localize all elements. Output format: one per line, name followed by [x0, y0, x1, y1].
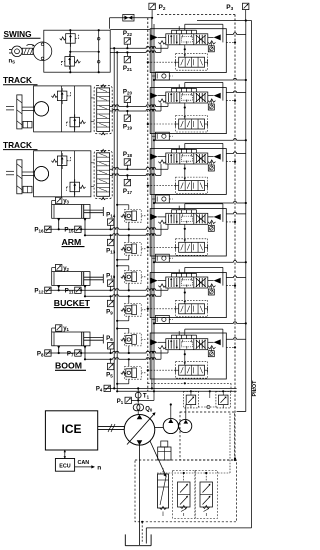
- shuttle valve after section track1: [156, 132, 170, 140]
- svg-text:nS: nS: [9, 59, 16, 65]
- work line B boom: [85, 358, 161, 360]
- main control valve V6 (boom): [166, 339, 208, 350]
- wire CAN arrow: [75, 466, 94, 468]
- pilot compensator valve under V2: [179, 119, 205, 129]
- track counterbalance valve: [94, 150, 112, 198]
- position sensor y3: [56, 197, 62, 203]
- pilot compensator valve under V4: [179, 242, 205, 252]
- sensor P19: [124, 115, 130, 121]
- track gearbox: [23, 121, 32, 128]
- wire return to tank: [146, 527, 251, 529]
- flow meter Q0: [133, 404, 140, 411]
- wire pilot dashed to compensator swing: [148, 61, 176, 63]
- wire pump bus 2: [116, 52, 118, 391]
- shuttle valve after section track2: [156, 195, 170, 203]
- svg-text:P18: P18: [123, 151, 133, 158]
- regulator dashed box: [135, 460, 237, 522]
- reducing valve upper boom: [121, 338, 126, 341]
- svg-text:P12: P12: [34, 288, 44, 295]
- reducing valve lower bucket: [121, 308, 126, 311]
- track relief valve 1: [57, 156, 67, 166]
- cylinder ARM: [52, 205, 90, 219]
- main control valve V4 (arm): [166, 213, 208, 224]
- pilot compensator valve under V1: [179, 57, 205, 67]
- tank: [124, 534, 126, 545]
- track valve box: [34, 151, 91, 197]
- compensator valve 1: [186, 395, 196, 405]
- svg-text:ECU: ECU: [59, 464, 70, 470]
- swash feedback link: [150, 441, 166, 476]
- main control valve V2 (track1): [166, 92, 208, 103]
- wire section tie line track1: [154, 138, 246, 140]
- swing shaft: [22, 48, 33, 54]
- valve section box track2: [150, 149, 226, 195]
- svg-text:P6: P6: [106, 335, 113, 342]
- work line B swing: [110, 51, 161, 53]
- regulator valve R2: [173, 471, 195, 519]
- wire V3 to compensator: [184, 164, 186, 181]
- wire regulator drain to tank: [141, 522, 143, 544]
- work line A bucket: [45, 289, 168, 291]
- swing hydraulic motor: [33, 42, 52, 61]
- swash servo actuator: [158, 447, 171, 460]
- pump arrow marks: [137, 415, 143, 420]
- svg-text:P22: P22: [123, 30, 133, 37]
- work line B track1: [110, 109, 161, 111]
- wire drop to swing box: [109, 18, 111, 29]
- sensor P17: [124, 179, 130, 185]
- wire swing box top to section: [110, 28, 150, 30]
- swing relief valve 1: [66, 34, 76, 44]
- shuttle valve after section bucket: [156, 315, 170, 323]
- orifice meter on P2 line: [123, 14, 134, 21]
- svg-text:ICE: ICE: [61, 422, 81, 436]
- wire swing right branch: [70, 51, 98, 53]
- svg-text:BOOM: BOOM: [55, 361, 82, 371]
- regulator dashed box upper: [180, 412, 235, 460]
- wire section tie line swing: [154, 78, 246, 80]
- svg-text:CAN: CAN: [78, 460, 90, 466]
- wire track box verticals: [61, 151, 63, 197]
- track valve box: [34, 86, 91, 132]
- gauge T1: [135, 392, 141, 398]
- svg-text:BUCKET: BUCKET: [54, 298, 91, 308]
- work line B bucket: [85, 295, 161, 297]
- valve section box swing: [150, 29, 226, 73]
- svg-text:P20: P20: [123, 89, 133, 96]
- main control valve V3 (track2): [166, 153, 208, 164]
- work line A swing: [110, 47, 168, 49]
- wire pilot dashed bus: [147, 18, 149, 392]
- track gearbox: [23, 186, 32, 193]
- wire swing center line: [69, 30, 71, 72]
- wire pilot dashed to V1: [226, 41, 235, 43]
- wire pilot dashed to V6: [226, 346, 235, 348]
- wire pilot dashed to compensator boom: [148, 369, 176, 371]
- track relief valve 2: [70, 117, 80, 127]
- reducing valve upper arm: [121, 214, 126, 217]
- ECU box: [55, 459, 74, 472]
- svg-text:T1: T1: [143, 394, 150, 400]
- wire V2 to compensator: [184, 103, 186, 119]
- wire top right return: [197, 20, 252, 22]
- swing valve box: [44, 30, 110, 72]
- main control valve V1 (swing): [166, 34, 208, 45]
- wire ARM port A: [58, 221, 60, 230]
- work line A arm: [45, 228, 168, 230]
- position sensor y2: [56, 264, 62, 270]
- regulator valve R3: [195, 471, 217, 519]
- swing relief valve 2: [65, 57, 75, 67]
- sensor P9: [107, 300, 113, 306]
- wire bottom second line: [117, 390, 236, 392]
- work line A track2: [110, 168, 168, 170]
- main control valve V5 (bucket): [166, 277, 208, 288]
- track relief valve 1: [57, 91, 67, 101]
- sensor P2: [149, 3, 155, 9]
- wire pilot dashed to V2: [226, 100, 235, 102]
- svg-text:SWING: SWING: [4, 29, 32, 39]
- gear pump 1: [163, 418, 178, 433]
- svg-text:P2: P2: [159, 4, 166, 11]
- work line B arm: [85, 234, 161, 236]
- wire pilot dashed to compensator arm: [148, 246, 176, 248]
- wire pilot dashed above compensators: [148, 382, 231, 384]
- work line A track1: [110, 105, 168, 107]
- reducing valve lower arm: [121, 247, 126, 250]
- wire V6 to compensator: [184, 350, 186, 366]
- wire section outlet track1: [226, 91, 246, 93]
- svg-text:P9: P9: [106, 309, 113, 316]
- wire pump bus 1: [113, 48, 115, 388]
- svg-text:y3: y3: [63, 199, 69, 205]
- wire track box verticals: [61, 86, 63, 132]
- wire regulator connections: [162, 468, 164, 474]
- shuttle valve after section swing: [156, 72, 170, 80]
- wire BOOM port A: [58, 348, 60, 353]
- work line B track2: [110, 174, 161, 176]
- wire gear pump risers: [170, 405, 172, 419]
- shuttle valve after section arm: [156, 254, 170, 262]
- svg-text:TRACK: TRACK: [3, 140, 32, 150]
- wire supply line S1: [151, 18, 153, 389]
- wire right return bus 1: [245, 21, 247, 412]
- swing check valve 2: [96, 59, 102, 65]
- junction dots swing box: [69, 29, 71, 31]
- wire pump case drain: [139, 445, 141, 545]
- svg-text:P7: P7: [67, 350, 74, 357]
- svg-text:y2: y2: [63, 266, 69, 272]
- wire BOOM port B: [84, 348, 86, 359]
- svg-text:P5: P5: [106, 372, 113, 379]
- wire BUCKET port B: [84, 288, 86, 297]
- wire return bend: [237, 411, 246, 413]
- sensor P21: [124, 56, 130, 62]
- svg-text:P15: P15: [64, 227, 74, 234]
- track hydraulic motor: [34, 167, 48, 181]
- svg-text:y1: y1: [63, 326, 69, 332]
- wire bottom supply line: [104, 387, 237, 389]
- wire section outlet track2: [226, 152, 246, 154]
- svg-text:P17: P17: [123, 188, 133, 195]
- wire V1 to compensator: [184, 45, 186, 57]
- wire ARM port B: [84, 221, 86, 236]
- engine ICE box: [45, 411, 97, 450]
- sensor P13: [107, 239, 113, 245]
- swing check valve 1: [96, 36, 102, 42]
- wire section outlet swing: [226, 33, 246, 35]
- wire pilot dashed to compensator bucket: [148, 308, 176, 310]
- svg-text:P8: P8: [37, 350, 44, 357]
- wire section outlet boom: [226, 338, 246, 340]
- svg-text:Q0: Q0: [145, 406, 153, 412]
- wire pump line P2 to top: [110, 17, 152, 19]
- valve section box track1: [150, 88, 226, 134]
- wire section outlet bucket: [226, 276, 246, 278]
- reducing valve lower boom: [121, 371, 126, 374]
- wire section outlet arm: [226, 212, 246, 214]
- regulator servo valve R1: [158, 474, 169, 508]
- cylinder BOOM: [52, 332, 90, 346]
- gear pump 2: [179, 419, 192, 432]
- wire pilot dashed to V4: [226, 221, 235, 223]
- cylinder BUCKET: [52, 272, 90, 286]
- main pump: [124, 415, 155, 446]
- track counterbalance valve: [94, 86, 112, 134]
- wire V4 to compensator: [184, 224, 186, 242]
- svg-text:P16: P16: [34, 227, 44, 234]
- swing gear: [12, 46, 23, 57]
- orifice on pilot drain: [233, 440, 237, 444]
- reducing valve upper bucket: [121, 275, 126, 278]
- track tread: [17, 160, 22, 194]
- wire pilot dashed to V5: [226, 285, 235, 287]
- wire section tie line track2: [154, 201, 246, 203]
- wire P1 tap line: [131, 399, 154, 401]
- wire pump riser: [137, 388, 139, 392]
- svg-text:P11: P11: [65, 288, 74, 295]
- svg-text:TRACK: TRACK: [3, 75, 32, 85]
- svg-text:P13: P13: [106, 248, 116, 255]
- wire ICE shaft: [98, 425, 125, 427]
- track tread: [17, 95, 22, 129]
- svg-text:P4: P4: [96, 387, 103, 393]
- svg-text:P21: P21: [123, 65, 133, 72]
- pilot compensator valve under V5: [179, 304, 205, 314]
- wire pilot dashed to compensator track1: [148, 123, 176, 125]
- svg-text:P3: P3: [226, 4, 233, 11]
- track relief valve 2: [70, 182, 80, 192]
- wire section tie line bucket: [154, 322, 246, 324]
- svg-text:ARM: ARM: [62, 237, 82, 247]
- valve section box bucket: [150, 273, 226, 318]
- svg-text:P1: P1: [117, 399, 124, 405]
- sensor P5: [107, 363, 113, 369]
- track input shaft: [6, 105, 14, 107]
- valve section box arm: [150, 209, 226, 256]
- wire compensator link: [209, 391, 211, 398]
- wire dashed pilot top: [157, 14, 235, 16]
- svg-text:n: n: [97, 464, 101, 471]
- wire pilot dashed to V3: [226, 161, 235, 163]
- svg-text:P19: P19: [123, 123, 133, 130]
- track input shaft: [6, 170, 14, 172]
- svg-text:P14: P14: [106, 211, 116, 218]
- pilot compensator valve under V6: [179, 365, 205, 375]
- wire BUCKET port A: [58, 288, 60, 291]
- position sensor y1: [56, 325, 62, 331]
- track hydraulic motor: [34, 102, 48, 116]
- compensator valve 2: [219, 395, 229, 405]
- wire right dashed pilot bus: [234, 15, 236, 461]
- wire right return bus 2: [251, 21, 253, 528]
- valve section box boom: [150, 333, 226, 379]
- svg-text:P10: P10: [106, 272, 116, 279]
- wire pilot dashed to compensator track2: [148, 185, 176, 187]
- wire V5 to compensator: [184, 288, 186, 304]
- pilot compensator valve under V3: [179, 181, 205, 191]
- wire pump to gear pumps: [155, 427, 163, 429]
- wire supply line S2: [153, 24, 155, 391]
- wire ICE to ECU arrows: [64, 450, 66, 459]
- work line A boom: [45, 351, 168, 353]
- wire section tie line arm: [154, 261, 246, 263]
